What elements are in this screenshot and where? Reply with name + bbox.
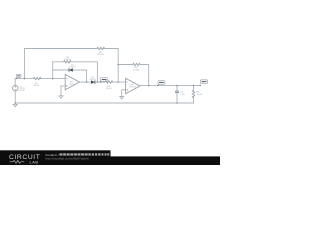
resistor R4 <box>133 63 141 65</box>
watermark left box <box>0 150 111 165</box>
wire feedback riser left <box>52 62 54 79</box>
node flag A <box>100 78 108 83</box>
svg-text:1N914: 1N914 <box>89 79 96 81</box>
resistor R5 vertical <box>192 90 194 98</box>
svg-text:10 kΩ: 10 kΩ <box>197 94 203 96</box>
svg-text:10 Hz: 10 Hz <box>20 90 25 92</box>
wire op1 plus to ground <box>61 86 65 96</box>
wire input rail <box>15 78 65 80</box>
svg-text:10 kΩ: 10 kΩ <box>133 69 139 71</box>
wire op1 out rail <box>80 81 126 83</box>
wire top rail <box>25 49 119 79</box>
wire out rail <box>140 85 199 87</box>
diode D2 <box>89 77 96 84</box>
wire riser2 <box>117 65 119 83</box>
node flag IN <box>16 74 21 79</box>
capacitor C1 <box>175 91 185 96</box>
svg-text:100 kΩ: 100 kΩ <box>97 54 104 56</box>
wire V1 top stem <box>14 79 16 86</box>
wire D1 rail <box>53 70 87 82</box>
diode D1 <box>69 65 76 72</box>
ground op1 <box>59 96 63 98</box>
watermark bottom bar <box>0 156 220 165</box>
wire op2 plus to ground <box>122 90 126 97</box>
svg-text:1 µF: 1 µF <box>180 94 185 96</box>
ground V1 <box>13 104 17 106</box>
ground op2 <box>120 97 124 99</box>
svg-text:LM741: LM741 <box>129 87 136 89</box>
junction dots <box>14 64 194 104</box>
node flag OUT <box>199 80 207 86</box>
wire R2 rail <box>53 62 98 82</box>
resistor R6 top <box>97 47 105 49</box>
svg-text:LAB: LAB <box>30 159 39 164</box>
resistor R2 <box>64 61 72 63</box>
svg-text:100 kΩ: 100 kΩ <box>64 59 71 61</box>
svg-text:1N914: 1N914 <box>69 67 76 69</box>
svg-text:http://circuitlab.com/c/6kdf7y: http://circuitlab.com/c/6kdf7y6pvw <box>46 157 90 161</box>
wire V1 bottom stem <box>14 91 16 104</box>
logo zigzag LAB <box>10 160 25 163</box>
voltage source V1 <box>13 85 27 92</box>
wire C1 branch <box>176 86 178 103</box>
svg-text:LM741: LM741 <box>69 84 76 86</box>
svg-text:10 kΩ: 10 kΩ <box>106 88 112 90</box>
resistor R1 <box>33 77 41 79</box>
op-amp OP1 <box>65 74 79 89</box>
op-amp OP2 <box>126 78 140 93</box>
wire R5 branch <box>193 86 195 103</box>
wire bottom rail <box>15 102 193 104</box>
svg-text:100 Ω: 100 Ω <box>33 85 39 87</box>
node flag MID <box>157 81 165 87</box>
wire R4 rail <box>118 65 149 86</box>
resistor R3 <box>105 81 113 83</box>
